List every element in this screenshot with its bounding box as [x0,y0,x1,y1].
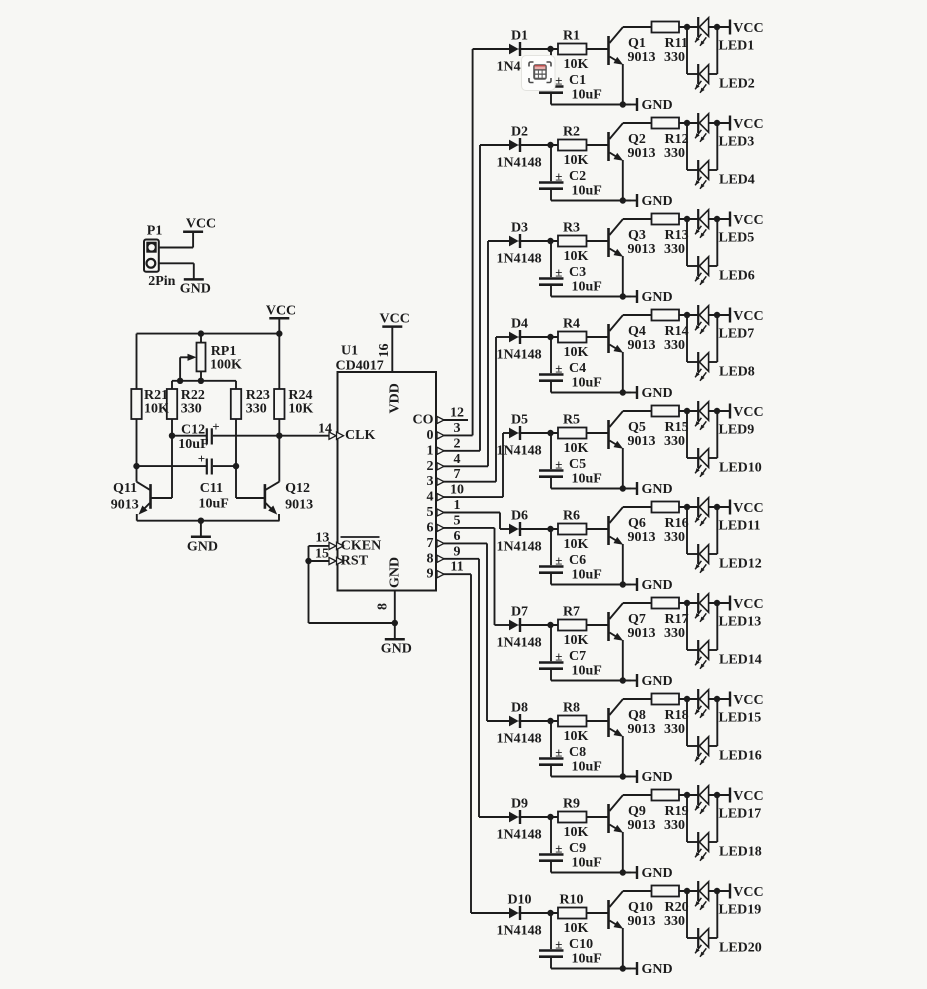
svg-text:P1: P1 [147,224,163,239]
svg-text:D7: D7 [511,605,528,620]
svg-text:VCC: VCC [733,501,763,516]
svg-text:8: 8 [376,603,391,610]
svg-text:13: 13 [315,531,329,546]
svg-text:LED14: LED14 [719,653,762,668]
svg-text:R6: R6 [563,509,580,524]
svg-text:D3: D3 [511,221,528,236]
svg-text:VCC: VCC [380,312,410,327]
svg-text:+: + [212,419,219,434]
svg-text:10uF: 10uF [572,760,602,775]
svg-text:U1: U1 [341,344,358,359]
svg-text:±: ± [555,937,562,952]
svg-text:LED1: LED1 [719,39,755,54]
svg-text:R17: R17 [665,612,689,627]
svg-text:6: 6 [454,529,461,544]
svg-text:10K: 10K [564,249,589,264]
svg-text:GND: GND [381,642,412,657]
svg-text:R10: R10 [559,893,583,908]
svg-text:R1: R1 [563,29,580,44]
svg-text:R18: R18 [665,708,689,723]
svg-text:±: ± [555,73,562,88]
svg-text:R8: R8 [563,701,580,716]
svg-text:LED13: LED13 [719,615,762,630]
svg-text:3: 3 [454,421,461,436]
svg-text:R12: R12 [665,132,689,147]
svg-text:VCC: VCC [733,213,763,228]
svg-text:1N4148: 1N4148 [497,348,542,363]
svg-text:1N4148: 1N4148 [497,252,542,267]
svg-text:C4: C4 [569,361,586,376]
svg-text:9: 9 [427,567,434,582]
svg-text:Q11: Q11 [113,481,137,496]
svg-text:9013: 9013 [628,146,656,161]
svg-text:15: 15 [315,547,329,562]
svg-text:330: 330 [181,402,202,417]
svg-text:GND: GND [642,962,673,977]
svg-text:GND: GND [642,386,673,401]
svg-text:LED19: LED19 [719,903,762,918]
svg-text:10uF: 10uF [572,856,602,871]
svg-text:GND: GND [642,482,673,497]
svg-text:Q1: Q1 [628,36,646,51]
svg-text:D8: D8 [511,701,528,716]
svg-text:D1: D1 [511,29,528,44]
svg-text:330: 330 [664,914,685,929]
svg-text:±: ± [555,265,562,280]
svg-text:10uF: 10uF [572,568,602,583]
svg-text:Q3: Q3 [628,228,646,243]
svg-text:9013: 9013 [628,626,656,641]
svg-text:330: 330 [664,722,685,737]
svg-text:1: 1 [427,443,434,458]
svg-text:LED4: LED4 [719,173,755,188]
svg-text:100K: 100K [210,358,242,373]
svg-text:1N4148: 1N4148 [497,732,542,747]
svg-text:1N4148: 1N4148 [497,924,542,939]
svg-text:9: 9 [454,544,461,559]
svg-text:LED20: LED20 [719,941,762,956]
svg-text:LED7: LED7 [719,327,755,342]
svg-text:R4: R4 [563,317,580,332]
svg-text:GND: GND [642,770,673,785]
svg-text:11: 11 [450,560,463,575]
svg-text:9013: 9013 [628,242,656,257]
svg-text:9013: 9013 [628,50,656,65]
svg-text:1: 1 [454,498,461,513]
svg-text:D2: D2 [511,125,528,140]
svg-text:Q7: Q7 [628,612,646,627]
svg-text:10uF: 10uF [572,472,602,487]
svg-text:330: 330 [664,146,685,161]
svg-text:R7: R7 [563,605,580,620]
svg-text:C9: C9 [569,841,586,856]
svg-text:C12: C12 [181,423,205,438]
svg-text:GND: GND [388,557,403,588]
svg-text:C11: C11 [200,481,223,496]
svg-text:Q8: Q8 [628,708,646,723]
svg-text:2Pin: 2Pin [148,274,175,289]
svg-text:2: 2 [427,459,434,474]
svg-text:VCC: VCC [733,789,763,804]
svg-text:10K: 10K [564,537,589,552]
svg-text:C10: C10 [569,937,593,952]
svg-text:RST: RST [341,554,369,569]
svg-text:10uF: 10uF [178,437,208,452]
svg-text:4: 4 [454,452,461,467]
svg-text:LED12: LED12 [719,557,762,572]
svg-text:9013: 9013 [628,722,656,737]
svg-text:3: 3 [427,474,434,489]
svg-text:R9: R9 [563,797,580,812]
svg-text:VDD: VDD [388,383,403,413]
svg-text:C5: C5 [569,457,586,472]
svg-text:9013: 9013 [628,434,656,449]
svg-text:Q5: Q5 [628,420,646,435]
svg-text:±: ± [555,649,562,664]
svg-text:GND: GND [180,281,211,296]
svg-text:LED5: LED5 [719,231,755,246]
svg-text:5: 5 [427,505,434,520]
svg-text:10uF: 10uF [572,280,602,295]
svg-text:LED10: LED10 [719,461,762,476]
svg-text:LED2: LED2 [719,77,755,92]
svg-text:9013: 9013 [628,818,656,833]
svg-text:10K: 10K [564,729,589,744]
svg-text:10uF: 10uF [572,664,602,679]
svg-text:1N4148: 1N4148 [497,540,542,555]
svg-text:5: 5 [454,513,461,528]
svg-text:LED11: LED11 [719,519,761,534]
svg-text:CLK: CLK [345,428,375,443]
svg-text:C3: C3 [569,265,586,280]
svg-text:±: ± [555,553,562,568]
svg-text:2: 2 [454,436,461,451]
svg-text:10uF: 10uF [199,497,229,512]
svg-text:GND: GND [642,674,673,689]
svg-text:C2: C2 [569,169,586,184]
svg-text:+: + [198,451,205,466]
svg-text:GND: GND [642,98,673,113]
svg-text:±: ± [555,169,562,184]
svg-text:7: 7 [454,467,461,482]
svg-text:±: ± [555,745,562,760]
svg-text:VCC: VCC [733,117,763,132]
svg-text:0: 0 [427,428,434,443]
svg-text:±: ± [555,457,562,472]
svg-text:10K: 10K [288,402,313,417]
svg-text:R16: R16 [665,516,689,531]
svg-text:Q4: Q4 [628,324,646,339]
svg-text:R11: R11 [665,36,688,51]
svg-text:R2: R2 [563,125,580,140]
svg-text:C6: C6 [569,553,586,568]
svg-text:1N4148: 1N4148 [497,828,542,843]
svg-text:10uF: 10uF [572,952,602,967]
svg-text:330: 330 [664,626,685,641]
svg-text:Q2: Q2 [628,132,646,147]
svg-text:9013: 9013 [628,530,656,545]
svg-text:GND: GND [187,540,218,555]
svg-text:1N4148: 1N4148 [497,156,542,171]
svg-text:10K: 10K [564,633,589,648]
svg-text:R5: R5 [563,413,580,428]
svg-text:12: 12 [450,406,464,421]
svg-text:R15: R15 [665,420,689,435]
svg-text:R3: R3 [563,221,580,236]
svg-text:330: 330 [246,402,267,417]
svg-text:330: 330 [664,818,685,833]
svg-text:330: 330 [664,50,685,65]
svg-text:VCC: VCC [733,597,763,612]
svg-text:D6: D6 [511,509,528,524]
svg-text:14: 14 [318,422,332,437]
svg-text:330: 330 [664,434,685,449]
svg-text:LED6: LED6 [719,269,755,284]
svg-text:LED18: LED18 [719,845,762,860]
svg-text:10uF: 10uF [572,376,602,391]
svg-text:C8: C8 [569,745,586,760]
svg-text:Q12: Q12 [285,481,310,496]
svg-text:CO: CO [413,413,434,428]
svg-text:LED8: LED8 [719,365,755,380]
svg-text:CD4017: CD4017 [336,359,384,374]
svg-text:330: 330 [664,530,685,545]
svg-text:LED17: LED17 [719,807,762,822]
svg-text:VCC: VCC [266,304,296,319]
svg-text:6: 6 [427,520,434,535]
svg-text:330: 330 [664,242,685,257]
svg-text:1N4148: 1N4148 [497,444,542,459]
svg-text:10K: 10K [144,402,169,417]
svg-text:9013: 9013 [285,498,313,513]
svg-text:10K: 10K [564,921,589,936]
svg-text:7: 7 [427,536,434,551]
svg-text:10K: 10K [564,153,589,168]
svg-text:R14: R14 [665,324,689,339]
svg-text:D10: D10 [507,893,531,908]
svg-text:GND: GND [642,194,673,209]
svg-text:CKEN: CKEN [341,538,381,553]
svg-text:10K: 10K [564,345,589,360]
svg-text:Q10: Q10 [628,900,653,915]
svg-text:R19: R19 [665,804,689,819]
svg-text:LED3: LED3 [719,135,755,150]
svg-text:10K: 10K [564,57,589,72]
svg-text:Q6: Q6 [628,516,646,531]
svg-text:D4: D4 [511,317,528,332]
svg-text:VCC: VCC [733,405,763,420]
svg-text:10uF: 10uF [572,88,602,103]
svg-text:10K: 10K [564,825,589,840]
svg-text:D9: D9 [511,797,528,812]
svg-text:VCC: VCC [733,693,763,708]
svg-text:LED9: LED9 [719,423,755,438]
svg-text:9013: 9013 [628,914,656,929]
svg-text:R13: R13 [665,228,689,243]
svg-text:330: 330 [664,338,685,353]
svg-text:1N4148: 1N4148 [497,636,542,651]
svg-text:GND: GND [642,290,673,305]
svg-text:D5: D5 [511,413,528,428]
svg-text:Q9: Q9 [628,804,646,819]
svg-text:VCC: VCC [186,217,216,232]
svg-text:4: 4 [427,490,434,505]
svg-text:C1: C1 [569,73,586,88]
svg-text:VCC: VCC [733,885,763,900]
svg-text:R20: R20 [665,900,689,915]
svg-text:±: ± [555,841,562,856]
svg-text:16: 16 [377,344,392,358]
svg-text:C7: C7 [569,649,586,664]
svg-text:10K: 10K [564,441,589,456]
svg-text:10uF: 10uF [572,184,602,199]
svg-text:VCC: VCC [733,21,763,36]
svg-text:LED16: LED16 [719,749,762,764]
svg-text:VCC: VCC [733,309,763,324]
svg-text:±: ± [555,361,562,376]
svg-text:GND: GND [642,578,673,593]
svg-text:GND: GND [642,866,673,881]
svg-text:8: 8 [427,551,434,566]
svg-text:9013: 9013 [111,498,139,513]
svg-text:10: 10 [450,483,464,498]
svg-text:LED15: LED15 [719,711,762,726]
svg-text:9013: 9013 [628,338,656,353]
